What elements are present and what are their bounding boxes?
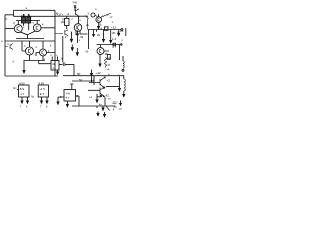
current source I7 arrow bbox=[92, 30, 95, 38]
svg-text:=17+: =17+ bbox=[57, 12, 64, 16]
resistor R8 zigzag bbox=[104, 58, 106, 68]
svg-text:o.: o. bbox=[53, 67, 55, 70]
wire Q4 leads bbox=[36, 41, 55, 61]
resistor R6 box bbox=[113, 43, 116, 46]
wire diagonal emitter bbox=[106, 106, 110, 111]
svg-text:.a.: .a. bbox=[25, 7, 28, 10]
resistor R2 bbox=[27, 17, 31, 23]
svg-text:+12: +12 bbox=[96, 71, 101, 75]
capacitor C3 bbox=[63, 62, 65, 66]
wire Q1 leads bbox=[5, 21, 40, 39]
wire B1 right lead bbox=[59, 63, 63, 65]
svg-text:E.T.: E.T. bbox=[40, 92, 45, 96]
current source I3 arrow bbox=[71, 45, 75, 52]
current source I9 arrow bbox=[109, 30, 112, 44]
ground arrow G1 bbox=[101, 106, 104, 111]
svg-text:*N9: *N9 bbox=[73, 1, 78, 5]
svg-text:42: 42 bbox=[80, 35, 84, 39]
svg-text:+12: +12 bbox=[111, 26, 116, 30]
transistor Q8 bbox=[97, 48, 104, 55]
ground arrows under U2 bbox=[40, 97, 49, 104]
wire R3 leads bbox=[66, 16, 68, 29]
box U2 module bbox=[38, 85, 48, 97]
resistor R1 bbox=[22, 17, 26, 23]
svg-text:4.5V: 4.5V bbox=[19, 82, 25, 86]
wire feedback rail bbox=[72, 76, 94, 85]
transistor Q7 bbox=[96, 17, 102, 23]
transistor T3 bbox=[55, 30, 68, 36]
svg-text:4.5V: 4.5V bbox=[39, 82, 45, 86]
svg-text:Q: Q bbox=[13, 22, 15, 25]
inductor L2 bbox=[122, 56, 124, 71]
svg-text:1.2: 1.2 bbox=[112, 37, 117, 41]
current source I6 arrow bbox=[97, 22, 100, 30]
svg-text:o,: o, bbox=[6, 18, 8, 21]
ground arrow under B3 bbox=[66, 101, 69, 108]
svg-text:2k: 2k bbox=[105, 52, 109, 56]
wire bottom rail bbox=[72, 105, 116, 107]
transistor Q6 bbox=[74, 24, 82, 32]
transistor Q2 bbox=[33, 24, 41, 32]
transistor T2 bbox=[86, 13, 98, 30]
transistor Q3 bbox=[26, 47, 34, 55]
resistor R4 zigzag bbox=[101, 14, 112, 18]
wire mid-right rail bbox=[97, 44, 123, 60]
wire Q7 top lead bbox=[97, 14, 100, 17]
wire C3 top lead bbox=[62, 36, 64, 62]
svg-text:+2o: +2o bbox=[107, 57, 112, 60]
box B3 filter bbox=[64, 90, 76, 102]
resistor R5 box bbox=[97, 27, 109, 32]
current source I4 arrow bbox=[76, 31, 79, 44]
svg-text:4 o: 4 o bbox=[66, 96, 70, 100]
svg-text:50: 50 bbox=[77, 72, 81, 76]
ground arrow G2 bbox=[96, 112, 99, 117]
box B1 bias bbox=[51, 61, 59, 71]
svg-text:4.7: 4.7 bbox=[20, 92, 24, 96]
current source I5 arrow bbox=[76, 48, 80, 57]
ground arrow G4 bbox=[119, 101, 123, 110]
svg-text:-17: -17 bbox=[107, 64, 111, 67]
supply +9V terminal bbox=[74, 6, 77, 11]
wire right low rail bbox=[106, 86, 120, 88]
wire Q6 leads bbox=[76, 17, 88, 35]
ground arrows under U1 bbox=[20, 97, 29, 104]
resistor R7 box bbox=[107, 55, 110, 60]
wire B1 top stubs bbox=[52, 57, 57, 61]
wire right top rail bbox=[88, 29, 121, 31]
svg-text:50: 50 bbox=[79, 78, 83, 82]
svg-text:2,: 2, bbox=[65, 36, 67, 39]
transistor TR2 bbox=[88, 87, 105, 107]
capacitor C1 ticks bbox=[113, 102, 117, 104]
svg-text:57a: 57a bbox=[20, 87, 25, 91]
wire R2 leads bbox=[28, 14, 30, 30]
transistor T1 bbox=[76, 9, 80, 18]
current source I11 arrow bbox=[90, 70, 93, 77]
svg-text:k.: k. bbox=[50, 45, 52, 48]
svg-text:17: 17 bbox=[91, 78, 95, 82]
svg-text:+2: +2 bbox=[107, 79, 111, 83]
wire C3 to bottom rail bbox=[65, 64, 74, 75]
wire Q8 leads bbox=[98, 45, 109, 68]
resistor R3 bbox=[65, 19, 70, 26]
svg-text:2k: 2k bbox=[97, 33, 101, 37]
ground arrow G3 bbox=[103, 112, 106, 118]
current source I2 arrow bbox=[70, 32, 74, 43]
current source I10 arrow bbox=[117, 30, 120, 37]
transistor Q5 bbox=[5, 44, 13, 50]
svg-text:16: 16 bbox=[120, 29, 124, 33]
box U1 module bbox=[17, 85, 29, 97]
capacitor C2 tick bbox=[114, 106, 118, 108]
svg-text:4.7: 4.7 bbox=[112, 45, 117, 49]
wire long bottom rail bbox=[63, 75, 124, 77]
wire mid rails bbox=[5, 39, 55, 42]
wire Q3 leads bbox=[22, 41, 45, 65]
current source I1 arrow bbox=[22, 65, 25, 74]
wire top center rail bbox=[55, 15, 88, 17]
node N1 junction bbox=[95, 94, 101, 108]
current source I12 arrow bbox=[118, 76, 121, 92]
svg-text:+4+: +4+ bbox=[66, 92, 71, 96]
svg-text:30: 30 bbox=[112, 31, 116, 35]
wire B3 left lead with ground arrow bbox=[56, 97, 64, 105]
svg-text:x,: x, bbox=[112, 21, 114, 24]
svg-text:+1.5: +1.5 bbox=[39, 87, 45, 91]
svg-text:7V: 7V bbox=[62, 18, 65, 22]
svg-text:9.: 9. bbox=[13, 61, 15, 64]
svg-text:E=: E= bbox=[14, 87, 18, 90]
transistor TR1 bbox=[89, 76, 105, 88]
ground arrow under B1 bbox=[56, 70, 59, 75]
IC1 outline box bbox=[5, 10, 58, 76]
current source I8 arrow bbox=[102, 30, 105, 43]
svg-text:3.: 3. bbox=[88, 12, 90, 16]
wire B3 right lead bbox=[76, 96, 80, 106]
wire R1 leads bbox=[23, 14, 25, 26]
wire center drop bbox=[88, 30, 90, 50]
transistor Q4 bbox=[40, 49, 47, 56]
transistor Q1 bbox=[14, 25, 22, 33]
wire B1 left lead bbox=[39, 61, 51, 64]
node terminal O2 bbox=[121, 28, 126, 36]
wire Q2 leads bbox=[28, 21, 56, 35]
wire B3 top lead bbox=[70, 84, 74, 90]
inductor L3 bbox=[122, 76, 125, 98]
